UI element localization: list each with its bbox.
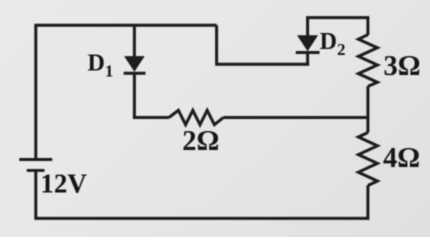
wire middle right of 2ohm — [223, 116, 369, 119]
svg-text:2Ω: 2Ω — [182, 126, 219, 157]
wire right rail bottom + bottom wire — [36, 170, 368, 219]
svg-text:12V: 12V — [40, 168, 87, 198]
battery 12V — [19, 160, 52, 171]
diode D2 — [296, 16, 320, 65]
diode D1 — [124, 24, 146, 119]
svg-text:3Ω: 3Ω — [384, 51, 421, 82]
wire right rail between 3ohm and 4ohm — [366, 86, 369, 132]
wire middle left of 2ohm — [133, 116, 169, 119]
svg-text:4Ω: 4Ω — [383, 143, 420, 174]
resistor 3ohm — [358, 35, 377, 87]
svg-text:D2: D2 — [320, 29, 346, 59]
svg-text:D1: D1 — [88, 50, 114, 80]
wire D2 top to right rail — [306, 18, 368, 35]
wire step down to D2 row — [217, 25, 310, 64]
resistor 2ohm — [169, 110, 223, 124]
resistor 4ohm — [358, 133, 377, 186]
wire top horizontal — [36, 25, 217, 158]
